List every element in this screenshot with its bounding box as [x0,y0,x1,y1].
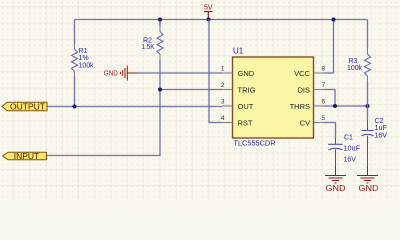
wire C2 branch from THRS junction [367,106,369,120]
svg-text:U1: U1 [233,47,244,56]
node THRS/R3/C2 junction [366,104,370,108]
wire TRIG net [160,89,223,91]
svg-text:R3: R3 [349,58,358,65]
capacitor C1 [328,134,360,167]
svg-text:TRIG: TRIG [238,85,256,94]
svg-text:7: 7 [322,82,326,89]
node rail/VCC junction [332,18,336,22]
svg-text:DIS: DIS [297,85,310,94]
pin 2 TRIG [221,82,256,94]
port OUTPUT [2,102,47,112]
wire R1 branch from rail down to OUTPUT net [74,20,76,107]
svg-text:OUT: OUT [238,102,254,111]
wire CV to C1 [324,123,336,139]
power 5V [204,3,213,20]
svg-text:1uF: 1uF [375,125,388,132]
svg-text:4: 4 [221,115,225,122]
svg-text:INPUT: INPUT [14,151,40,161]
wire R3 branch from rail [367,20,369,107]
pin 5 CV [300,115,326,127]
svg-text:8: 8 [322,66,326,73]
svg-text:CV: CV [300,118,310,127]
svg-text:GND: GND [238,69,255,78]
resistor R3 [347,49,371,82]
svg-text:OUTPUT: OUTPUT [10,102,45,112]
node THRS/DIS junction [333,104,337,108]
svg-text:1%: 1% [79,55,89,62]
node rail/5V junction [207,18,211,22]
svg-text:RST: RST [238,118,253,127]
svg-text:6: 6 [322,99,326,106]
svg-text:GND: GND [359,184,379,193]
ground GND power port at pin 1 [104,66,137,81]
svg-text:1.5K: 1.5K [142,44,155,51]
svg-text:1: 1 [221,66,225,73]
svg-text:C1: C1 [344,134,353,141]
svg-text:C2: C2 [375,118,384,125]
pin 6 THRS [290,99,326,111]
svg-text:VCC: VCC [294,69,310,78]
capacitor C2 [362,118,388,167]
wire R2 branch from rail [47,20,161,156]
wire 5V top rail [75,19,368,21]
svg-text:5: 5 [322,115,326,122]
pin 4 RST [221,115,253,127]
port INPUT [3,151,47,161]
pin 3 OUT [221,99,254,111]
svg-text:10uF: 10uF [344,145,361,152]
pin 8 VCC [294,66,325,78]
svg-text:100k: 100k [347,65,362,72]
svg-text:2: 2 [221,82,225,89]
wire DIS down to THRS net [324,90,336,107]
svg-text:100k: 100k [79,62,94,69]
resistor R1 [72,45,94,77]
ground GND under C2 [357,167,379,193]
wire THRS net [324,105,368,107]
node TRIG/R2/INPUT junction [158,88,162,92]
svg-text:3: 3 [221,99,225,106]
wire VCC riser to rail [324,20,334,74]
svg-text:GND: GND [326,184,346,193]
wire OUTPUT net [47,106,223,108]
svg-text:THRS: THRS [290,102,310,111]
resistor R2 [142,27,164,61]
svg-text:16V: 16V [344,157,357,164]
wire RST net from rail to pin 4 [209,20,223,123]
svg-text:5V: 5V [204,3,213,12]
pin 1 GND [221,66,255,78]
wire GND net to pin 1 [137,72,223,74]
pin 7 DIS [297,82,325,94]
node OUTPUT/R1 junction [73,105,77,109]
svg-text:16V: 16V [375,132,388,139]
op-amp U1 TLC555CDR body [233,47,314,148]
node rail/R2 junction [158,18,162,22]
svg-text:GND: GND [104,68,118,77]
ground GND under C1 [325,167,346,193]
svg-text:R1: R1 [79,48,88,55]
svg-text:TLC555CDR: TLC555CDR [234,138,277,147]
